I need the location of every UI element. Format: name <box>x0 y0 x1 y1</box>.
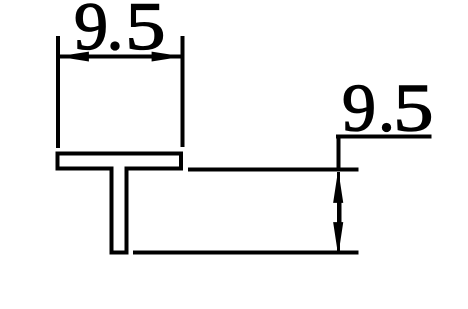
extension line stem bottom (right) <box>133 251 359 255</box>
extension line flange bottom (right) <box>188 168 359 172</box>
extension line right <box>181 36 185 147</box>
extension line left <box>56 36 60 148</box>
dimension label 9.5 (top width) <box>74 0 166 64</box>
leader line vertical <box>336 137 340 171</box>
arrowhead right <box>152 52 181 61</box>
dimension label 9.5 (right height) <box>342 70 434 146</box>
svg-text:5: 5 <box>393 70 433 146</box>
T-profile outline <box>58 154 182 253</box>
leader line horizontal <box>336 135 431 139</box>
dimension line vertical 9.5 <box>337 172 340 252</box>
dimension line vertical thick middle <box>337 201 342 224</box>
arrowhead up <box>334 172 343 202</box>
svg-text:.: . <box>107 0 124 64</box>
arrowhead down <box>334 223 343 254</box>
dimension line horizontal 9.5 <box>60 55 181 59</box>
arrowhead left <box>60 52 89 61</box>
svg-text:9: 9 <box>342 70 376 146</box>
